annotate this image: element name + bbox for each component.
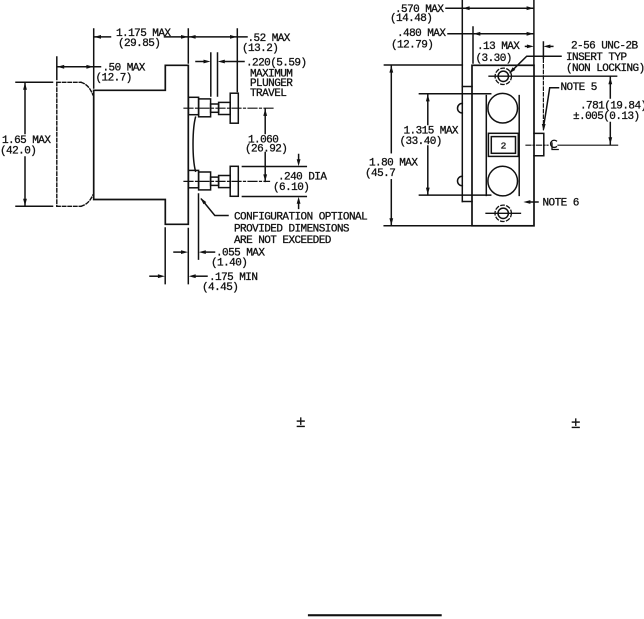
plunger guide at y=108.3	[199, 99, 211, 117]
dim .13 arrow tail left	[526, 45, 529, 47]
svg-text:(42.0): (42.0)	[0, 145, 36, 157]
dim .781 dimension line upper segment	[609, 77, 611, 98]
dim .480 dimension line	[448, 33, 534, 35]
top screw centerline extended right for .781 dim	[489, 75, 617, 77]
svg-text:(33.40): (33.40)	[400, 136, 442, 148]
dim 1.060 arrow down	[263, 174, 267, 181]
dim .570 extension line right / plate edge extension	[533, 0, 535, 65]
dim .480 extension line left	[472, 27, 474, 63]
svg-text:2: 2	[501, 140, 507, 151]
plunger nut at y=108.3	[219, 102, 231, 114]
dim .13 arrow left	[527, 45, 534, 49]
dim .50 MAX arrow left	[57, 65, 64, 69]
svg-text:(4.45): (4.45)	[202, 282, 238, 294]
dim 1.175 MAX arrow right	[181, 35, 188, 39]
svg-text:±: ±	[571, 415, 580, 432]
case ear semicircle top	[457, 103, 462, 113]
dim .240 DIA extension line bottom	[242, 196, 306, 198]
plunger boss at y=108.3	[188, 97, 198, 114]
svg-text:PROVIDED DIMENSIONS: PROVIDED DIMENSIONS	[234, 223, 350, 235]
dim 1.80 arrow down	[389, 218, 393, 225]
dim .781 arrow down	[608, 137, 612, 144]
plunger shaft at y=181.4	[211, 177, 219, 185]
dim .570 arrow right	[527, 6, 534, 10]
svg-text:(6.10): (6.10)	[273, 182, 309, 194]
dim .220 extension line left	[210, 53, 212, 96]
dim .055 extension line x165	[164, 228, 166, 284]
dim .240 DIA upper arrow line	[298, 155, 300, 161]
dim 1.80 arrow up	[389, 66, 393, 73]
dim 1.315 arrow up	[426, 94, 430, 101]
phantom dashed envelope - bottom fillet	[81, 195, 93, 206]
front view case behind plate - left edge	[461, 87, 463, 202]
dim 1.80 extension line top	[384, 64, 462, 66]
dim .240 DIA arrow down	[297, 159, 301, 166]
front view mounting plate	[472, 65, 534, 226]
leader line configuration optional	[202, 199, 229, 215]
bottom screw centerline	[486, 212, 521, 214]
svg-text:.480 MAX: .480 MAX	[397, 28, 446, 40]
dim 1.65 arrow down	[23, 199, 27, 206]
dim 1.65 extension line bottom	[16, 205, 53, 207]
dim .50 MAX arrow right	[86, 65, 93, 69]
plunger boss at y=181.4	[188, 170, 198, 187]
thread note leader arrowhead	[509, 67, 515, 73]
window inner rect	[491, 137, 515, 154]
dim .220 extension line right	[217, 53, 219, 96]
centerline dash-dot at switch mid height	[526, 144, 548, 146]
centerline symbol CL	[551, 140, 557, 147]
window outer rect	[488, 133, 518, 156]
svg-text:(1.40): (1.40)	[211, 258, 247, 270]
dim .220 arrow left	[204, 60, 211, 64]
bottom screw insert thread circle dashed	[495, 205, 511, 221]
svg-text:NOTE 5: NOTE 5	[561, 82, 597, 94]
dim .055 extension line x198.5	[198, 194, 200, 259]
dim 1.175 MAX dimension line right segment	[165, 36, 189, 38]
dim .13 extension line right	[542, 42, 544, 58]
svg-text:ARE NOT EXCEEDED: ARE NOT EXCEEDED	[234, 235, 332, 247]
bottom separator bar	[308, 614, 442, 616]
dim .220 arrow tail left	[196, 61, 204, 63]
dim 1.060 arrow up	[263, 109, 267, 116]
phantom dashed envelope - top edge	[57, 81, 81, 83]
dim .52 MAX arrow left	[189, 35, 196, 39]
front view case behind plate - top edge	[462, 86, 472, 88]
dim 1.060 dimension line lower segment	[264, 153, 266, 182]
dim .220 arrow right	[218, 60, 225, 64]
dim 1.315 extension line top	[419, 93, 490, 95]
dim 1.65 arrow up	[23, 83, 27, 90]
dim 1.80 dimension line lower segment	[390, 180, 392, 225]
dim 1.175 MAX extension line right	[187, 29, 189, 63]
front view case behind plate - bottom edge	[462, 201, 472, 203]
dim .055 arrow tail right	[206, 251, 215, 253]
leader arrow configuration optional	[200, 198, 206, 205]
dim .570 arrow left	[463, 6, 470, 10]
dim .175 arrow tail left	[150, 275, 158, 277]
dim .480 arrow right	[527, 32, 534, 36]
dim 1.65 dimension line lower segment	[24, 157, 26, 206]
phantom dashed envelope - bottom edge	[57, 205, 81, 207]
dim .055 arrow right	[199, 250, 206, 254]
dim .52 MAX arrow right	[230, 35, 237, 39]
bottom button circle	[488, 166, 518, 196]
plunger nut at y=181.4	[219, 176, 231, 188]
dim 1.175 MAX extension line left	[93, 29, 95, 88]
dim .240 DIA lower arrow line	[298, 203, 300, 208]
plunger shaft at y=108.3	[211, 104, 219, 112]
dim 1.315 extension line bottom	[419, 194, 490, 196]
note 6 leader tail	[530, 201, 538, 203]
svg-text:NOTE 6: NOTE 6	[543, 197, 579, 209]
left view housing arc between plungers (configuration optional face)	[193, 117, 195, 171]
dim 1.060 dimension line upper segment	[264, 109, 266, 134]
svg-text:±: ±	[296, 414, 305, 431]
left view switch body outline	[94, 65, 189, 224]
bottom plunger centerline	[184, 180, 270, 182]
note 6 leader arrowhead	[523, 200, 530, 204]
svg-text:INSERT TYP: INSERT TYP	[566, 52, 627, 64]
plunger cap at y=181.4	[230, 166, 238, 196]
dim 1.315 arrow down	[426, 188, 430, 195]
dim .570 dimension line	[446, 7, 534, 9]
svg-text:(NON LOCKING): (NON LOCKING)	[566, 63, 644, 75]
dim .055 extension line x188	[187, 229, 189, 284]
dim 1.315 dimension line upper segment	[427, 94, 429, 124]
phantom dashed envelope - top fillet	[81, 82, 93, 95]
dim .570 extension line left	[461, 0, 463, 87]
dim .175 arrow right	[189, 274, 196, 278]
svg-text:2-56 UNC-2B: 2-56 UNC-2B	[571, 40, 639, 52]
dim .50 MAX extension line	[56, 57, 58, 80]
tab hidden edge dashed above	[542, 59, 544, 131]
dim .50 MAX dimension line	[57, 66, 100, 68]
svg-text:(14.48): (14.48)	[390, 13, 432, 25]
dim 1.65 extension line top	[16, 81, 53, 83]
top screw insert inner circle	[498, 71, 508, 81]
svg-text:(12.7): (12.7)	[96, 72, 132, 84]
svg-text:TRAVEL: TRAVEL	[250, 88, 286, 100]
dim .055 arrow left	[181, 250, 188, 254]
dim 1.80 dimension line upper segment	[390, 66, 392, 153]
plunger cap at y=108.3	[230, 93, 238, 123]
note 5 leader arrowhead	[542, 124, 546, 131]
dim .13 arrow right	[543, 45, 550, 49]
svg-text:(29.85): (29.85)	[118, 38, 160, 50]
right side tab outline	[534, 133, 544, 155]
top plunger centerline	[184, 107, 274, 109]
case ear semicircle bottom	[457, 176, 462, 186]
dim 1.175 MAX dimension line left segment	[94, 36, 111, 38]
svg-text:(3.30): (3.30)	[476, 53, 512, 65]
note 5 leader line	[544, 88, 559, 125]
dim 1.65 dimension line upper segment	[24, 83, 26, 134]
top screw insert thread circle dashed	[495, 68, 511, 84]
svg-text:(26.92): (26.92)	[245, 143, 287, 155]
dim 1.315 dimension line lower segment	[427, 146, 429, 195]
dim .220 arrow tail right	[225, 61, 244, 63]
dim .13 arrow tail right	[550, 45, 552, 47]
raised strip left vertical	[485, 96, 487, 196]
dim .055 arrow tail left	[174, 251, 181, 253]
svg-text:.13 MAX: .13 MAX	[477, 41, 520, 53]
dim .175 arrow tail right	[196, 275, 207, 277]
svg-text:(12.79): (12.79)	[391, 39, 433, 51]
top button circle	[488, 93, 518, 123]
plunger guide at y=181.4	[199, 172, 211, 190]
bottom screw insert inner circle	[498, 208, 508, 218]
dim 1.80 extension line bottom	[384, 225, 472, 227]
phantom dashed envelope - left vertical	[56, 82, 58, 206]
dim .52 MAX extension line right	[236, 29, 238, 92]
raised strip right vertical	[518, 96, 520, 196]
svg-text:±.005(0.13): ±.005(0.13)	[573, 111, 640, 123]
thread note leader line	[511, 56, 562, 72]
dim .240 DIA arrow up	[297, 197, 301, 204]
svg-text:(45.7: (45.7	[365, 168, 395, 180]
dim .781 dimension line lower segment	[609, 123, 611, 145]
dim .240 DIA extension line top	[242, 166, 306, 168]
dim .175 arrow left	[158, 274, 165, 278]
dim .52 MAX dimension line	[189, 36, 247, 38]
dim .781 arrow up	[608, 77, 612, 84]
centerline extension to dimension	[558, 144, 618, 146]
svg-text:CONFIGURATION OPTIONAL: CONFIGURATION OPTIONAL	[234, 211, 367, 223]
dim 1.175 MAX arrow left	[94, 35, 101, 39]
svg-text:(13.2): (13.2)	[242, 43, 278, 55]
dim .480 arrow left	[473, 32, 480, 36]
